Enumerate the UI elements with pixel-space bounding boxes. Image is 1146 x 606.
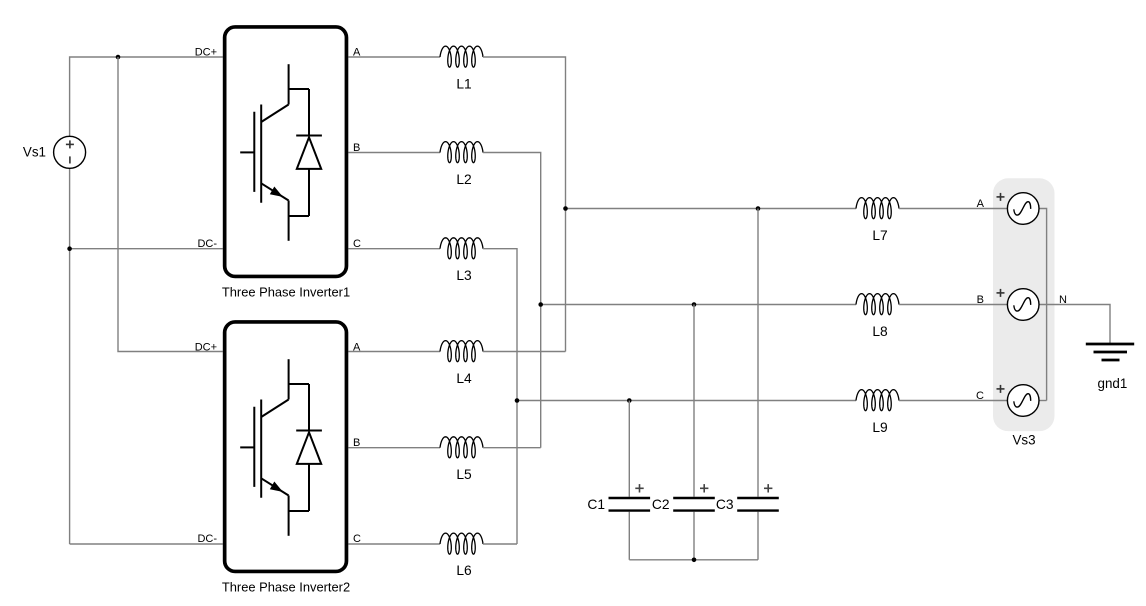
wire L6 joins phase-C drop bbox=[483, 543, 517, 545]
wire phase C bus to L9 bbox=[517, 400, 856, 402]
wire C3 bottom to rail bbox=[757, 512, 759, 560]
inductor L5 bbox=[440, 437, 483, 458]
three-phase source Vs3 background block bbox=[993, 178, 1055, 431]
wire phase C down to capacitor C1 bbox=[628, 401, 630, 497]
svg-text:A: A bbox=[353, 47, 361, 59]
inductor L2 bbox=[440, 142, 483, 163]
three-phase inverter block U1 outline bbox=[225, 27, 347, 277]
junction phase A at drop bbox=[563, 206, 568, 211]
capacitor C2 bbox=[673, 498, 715, 511]
inductor L4 bbox=[440, 341, 483, 362]
svg-text:DC-: DC- bbox=[197, 238, 217, 250]
wire C2 bottom to rail bbox=[693, 512, 695, 560]
svg-text:L3: L3 bbox=[456, 268, 472, 283]
wire L4 joins phase-A drop bbox=[483, 351, 566, 353]
IGBT with antiparallel diode icon inside inverter2 bbox=[240, 359, 322, 536]
wire Vs3 phase B / neutral N out to ground bbox=[1039, 305, 1110, 344]
wire Vs1 top lead to DC+ rail bbox=[70, 57, 223, 136]
wire DC+ rail down to inverter2 DC+ bbox=[118, 57, 223, 352]
inductor L7 bbox=[856, 198, 899, 219]
svg-text:DC+: DC+ bbox=[195, 47, 217, 59]
svg-text:Vs1: Vs1 bbox=[23, 145, 46, 160]
wire L8 to Vs3 B bbox=[899, 304, 1007, 306]
wire Vs3 phase A to neutral bus bbox=[1039, 209, 1047, 401]
junction DC+ rail split bbox=[116, 55, 121, 60]
svg-text:Three Phase Inverter2: Three Phase Inverter2 bbox=[222, 580, 350, 595]
wire capacitor common rail bbox=[629, 559, 758, 561]
svg-text:L8: L8 bbox=[872, 324, 888, 339]
ground symbol gnd1 bbox=[1086, 344, 1134, 360]
svg-text:B: B bbox=[977, 294, 984, 306]
capacitor C3 bbox=[737, 498, 779, 511]
svg-text:C: C bbox=[353, 238, 361, 250]
junction DC- rail bbox=[67, 246, 72, 251]
wire inverter1 C to L3 bbox=[348, 248, 440, 250]
inductor L8 bbox=[856, 294, 899, 315]
svg-text:A: A bbox=[977, 198, 985, 210]
svg-text:C: C bbox=[976, 390, 984, 402]
wire L1 to phase-A drop bbox=[483, 57, 566, 352]
wire inverter1 B to L2 bbox=[348, 152, 440, 154]
svg-text:L7: L7 bbox=[872, 228, 887, 243]
svg-text:L5: L5 bbox=[456, 467, 472, 482]
wire phase A down to capacitor C3 bbox=[757, 209, 759, 497]
svg-text:Three Phase Inverter1: Three Phase Inverter1 bbox=[222, 285, 350, 300]
wire L5 joins phase-B drop bbox=[483, 447, 541, 449]
wire phase A bus to L7 bbox=[566, 208, 857, 210]
svg-text:L6: L6 bbox=[456, 563, 472, 578]
svg-text:gnd1: gnd1 bbox=[1098, 376, 1128, 391]
wire inverter2 A to L4 bbox=[348, 351, 440, 353]
junction phase C at drop bbox=[515, 398, 520, 403]
svg-text:B: B bbox=[353, 437, 360, 449]
three-phase inverter block U2 outline bbox=[225, 322, 347, 572]
wire inverter1 A to L1 bbox=[348, 56, 440, 58]
svg-text:C3: C3 bbox=[716, 497, 734, 512]
ac source Vs3 phase A bbox=[997, 193, 1040, 225]
wire inverter2 C to L6 bbox=[348, 543, 440, 545]
svg-text:L4: L4 bbox=[456, 371, 472, 386]
inductor L9 bbox=[856, 390, 899, 411]
capacitor C1 bbox=[609, 498, 651, 511]
wire L9 to Vs3 C bbox=[899, 400, 1007, 402]
svg-text:L2: L2 bbox=[456, 172, 471, 187]
svg-text:Vs3: Vs3 bbox=[1012, 433, 1035, 448]
junction phase A to C3 bbox=[756, 206, 761, 211]
svg-text:N: N bbox=[1059, 294, 1067, 306]
wire Vs1 bottom lead down left rail bbox=[69, 168, 71, 544]
wire C1 bottom to rail bbox=[628, 512, 630, 560]
junction phase C to C1 bbox=[627, 398, 632, 403]
svg-text:DC+: DC+ bbox=[195, 342, 217, 354]
junction capacitor rail bbox=[692, 558, 697, 563]
svg-text:C1: C1 bbox=[587, 497, 605, 512]
svg-text:L9: L9 bbox=[872, 420, 888, 435]
wire phase B bus to L8 bbox=[541, 304, 856, 306]
svg-text:C2: C2 bbox=[652, 497, 670, 512]
wire DC- to inverter1 bbox=[70, 248, 223, 250]
svg-text:A: A bbox=[353, 342, 361, 354]
svg-text:C: C bbox=[353, 533, 361, 545]
wire L3 to phase-C drop bbox=[483, 249, 517, 544]
svg-text:DC-: DC- bbox=[197, 533, 217, 545]
wire phase B down to capacitor C2 bbox=[693, 305, 695, 497]
ac source Vs3 phase C bbox=[997, 385, 1040, 417]
junction phase B to C2 bbox=[692, 302, 697, 307]
dc voltage source Vs1 bbox=[54, 136, 86, 168]
junction phase B at drop bbox=[538, 302, 543, 307]
wire inverter2 B to L5 bbox=[348, 447, 440, 449]
svg-text:B: B bbox=[353, 142, 360, 154]
inductor L3 bbox=[440, 238, 483, 259]
wire Vs3 phase C to neutral bus bbox=[1039, 400, 1047, 402]
IGBT with antiparallel diode icon inside inverter1 bbox=[240, 64, 322, 241]
wire L7 to Vs3 A bbox=[899, 208, 1007, 210]
inductor L6 bbox=[440, 533, 483, 554]
wire DC- to inverter2 bbox=[70, 543, 223, 545]
inductor L1 bbox=[440, 46, 483, 67]
svg-text:L1: L1 bbox=[456, 77, 471, 92]
wire L2 to phase-B drop bbox=[483, 153, 541, 448]
ac source Vs3 phase B bbox=[997, 289, 1040, 321]
